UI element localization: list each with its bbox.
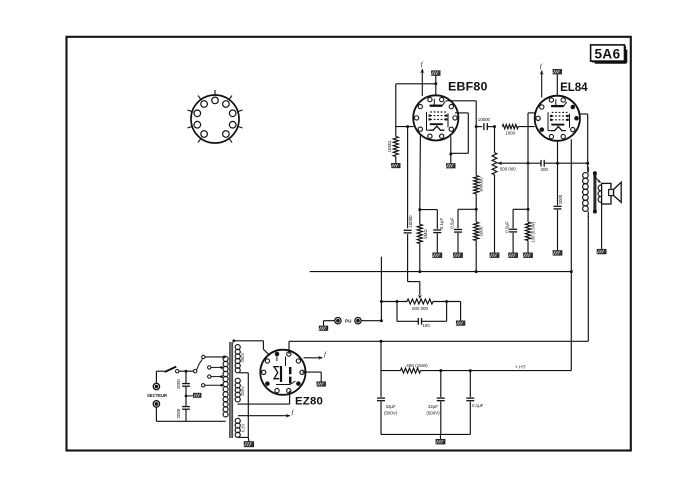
speaker arrow (594, 176, 601, 183)
selector tap 3 (202, 384, 223, 387)
svg-text:SECTEUR: SECTEUR (147, 393, 167, 398)
svg-text:2000: 2000 (176, 379, 181, 389)
wire EBF80 anode top (446, 101, 477, 127)
wire speaker secondary to ground (601, 204, 603, 249)
power transformer secondary 250V-2 (235, 378, 245, 402)
svg-text:5A6: 5A6 (595, 46, 621, 61)
capacitor 200pF NFB (541, 160, 549, 172)
svg-text:10000: 10000 (478, 117, 491, 122)
switch interrupteur (165, 367, 179, 373)
potentiometer 500000 (tone) (407, 299, 433, 311)
wire mains bottom (155, 407, 157, 421)
wire 2000 to ground (557, 210, 559, 251)
wire 130 to ground (527, 241, 529, 253)
ground under cathode cap (509, 253, 518, 258)
svg-text:250V: 250V (240, 352, 245, 362)
svg-text:450 (15W): 450 (15W) (406, 363, 428, 368)
tube EBF80 envelope (413, 95, 458, 140)
wire primary bottom lead (156, 420, 225, 422)
junction grid node EL84 (493, 125, 496, 128)
svg-text:EZ80: EZ80 (295, 395, 323, 407)
wire EL84 anode (579, 114, 588, 172)
junction EBF80 shield node (434, 82, 437, 85)
ground under 0,1µF (433, 253, 442, 258)
wire EZ80 cathode to rail (288, 341, 290, 354)
wire EBF80 cathode stub (450, 137, 452, 164)
wire mains top (156, 371, 164, 383)
wire PU ground lead (324, 321, 335, 326)
junction 1000 on bus (475, 270, 478, 273)
power transformer secondary 250V-1 (235, 345, 245, 373)
wire cap3 drop (469, 371, 471, 398)
junction diode node (406, 125, 409, 128)
ground under 2000 (553, 251, 562, 256)
resistor 100000 (474, 176, 484, 195)
svg-text:130 (0,5W): 130 (0,5W) (531, 221, 536, 242)
junction tone pot left (396, 300, 399, 303)
svg-text:6,3V: 6,3V (241, 423, 246, 432)
tube EZ80 envelope (260, 350, 305, 395)
junction PU line (380, 319, 383, 322)
EL84 filament arrow f (540, 63, 544, 98)
svg-text:1000: 1000 (479, 226, 484, 236)
tube EL84 internals (548, 99, 570, 130)
junction grid RC node (418, 208, 421, 211)
junction tone pot right (445, 300, 448, 303)
wire AGC cap drop (407, 127, 409, 229)
ground PU (319, 326, 328, 330)
ground filter (436, 439, 445, 444)
wire coupling cap to grid node (487, 126, 494, 128)
junction cathode stub (449, 153, 452, 156)
ground under pot (490, 253, 499, 258)
junction decouple node (475, 208, 478, 211)
svg-text:EL84: EL84 (560, 81, 588, 94)
wire NFB line (498, 162, 588, 164)
junction pot line (380, 300, 383, 303)
wire primary bottom drop (587, 216, 589, 341)
junction cathode-NFB (527, 162, 530, 165)
svg-text:2000: 2000 (558, 194, 563, 204)
tube EBF80 label (448, 80, 488, 94)
wire EZ80 anode-2 lead (238, 391, 290, 404)
svg-text:32µF: 32µF (428, 404, 438, 409)
wire grid stopper to EL84 (518, 126, 535, 128)
selector tap 2 (208, 375, 223, 378)
wire decouple branch (458, 209, 476, 228)
svg-text:0,1µF: 0,1µF (472, 403, 484, 408)
wire tone pot to ground (460, 302, 462, 321)
wire EBF80 diode to left node (396, 126, 414, 128)
resistor 130 (0,5W) (525, 221, 535, 242)
power transformer primary (223, 356, 228, 417)
plate label 5A6 (591, 45, 627, 63)
heater winding arrow f (238, 409, 295, 418)
svg-text:+ HT: + HT (515, 364, 526, 370)
junction NFB-2000 node (556, 162, 559, 165)
wire 0,5µF to ground (457, 233, 459, 253)
svg-text:1000: 1000 (505, 130, 515, 135)
tube socket (unused) (187, 90, 242, 143)
tube EL84 envelope (535, 96, 580, 141)
wire pot to ground (494, 175, 496, 253)
svg-text:PU: PU (345, 319, 352, 324)
capacitor 0,1µF (grid) (433, 218, 444, 233)
junction cathode-cap node (527, 208, 530, 211)
ground EZ80 (317, 382, 326, 386)
svg-text:100: 100 (422, 323, 430, 328)
ground under EBF80 (446, 164, 455, 168)
wire grid node to pot (494, 127, 496, 153)
junction +HT cap2 (439, 369, 442, 372)
speaker (602, 182, 622, 204)
wire tone branch (397, 302, 447, 322)
ground mains filter (193, 393, 201, 397)
wire switch to junction (179, 370, 194, 372)
wire EL84 screen riser (570, 139, 572, 370)
wire bottom rail ground stub (440, 434, 442, 439)
tube EZ80 label (295, 395, 323, 407)
wire EBF80 grid drop (419, 134, 422, 224)
wire cap2 to rail (440, 402, 442, 435)
wire tone pot line (381, 301, 460, 303)
wire primary top tap (205, 356, 226, 359)
junction anode-cap tap (475, 125, 478, 128)
PU connector left (335, 318, 341, 324)
capacitor 0,5µF cathode (504, 221, 517, 233)
svg-text:0,1µF: 0,1µF (439, 218, 444, 230)
wire PU hot (361, 320, 381, 322)
wire cap2 drop (440, 371, 442, 398)
selector tap 1 (208, 366, 223, 369)
EL84 shield chassis ground (553, 69, 562, 95)
output transformer primary (583, 167, 589, 217)
capacitor 100pF tone (418, 318, 430, 328)
wire EL84 cathode drop (528, 113, 536, 222)
wire PU riser (380, 257, 382, 321)
output transformer core (593, 171, 597, 213)
wire 5MΩ to bus (419, 244, 421, 272)
wiper arrow into volume pot (418, 293, 422, 299)
tube EZ80 internals (274, 357, 296, 385)
wire 1000 to bus (475, 241, 477, 272)
wire EBF80 right Z-route (451, 113, 469, 153)
wire load to decouple node (475, 194, 477, 222)
wire EZ80 anode-1 lead (234, 341, 270, 355)
svg-text:0,5µF: 0,5µF (504, 221, 509, 233)
wire +HT line (381, 370, 571, 372)
junction mains caps (185, 395, 188, 398)
SECTEUR connector bottom (153, 401, 159, 407)
capacitor 0,1µF output (466, 398, 483, 408)
wire HT rail (289, 340, 588, 342)
svg-text:(500V): (500V) (384, 410, 398, 415)
resistor 450 (15W) (401, 363, 429, 373)
power transformer core (230, 342, 233, 438)
wire first cap to rail (380, 402, 382, 435)
svg-text:5MΩ: 5MΩ (423, 229, 428, 239)
svg-text:(500V): (500V) (426, 410, 440, 415)
ground under speaker (597, 249, 606, 254)
SECTEUR connector top (153, 383, 159, 389)
EBF80 shield chassis ground (431, 71, 440, 96)
wire EZ80 to chassis (302, 372, 321, 382)
wire cathode cap branch (513, 209, 528, 228)
wire EBF80 top-left horizontal (396, 83, 436, 85)
ground under 0,5µF (454, 253, 463, 258)
capacitor 10000pF coupling (478, 117, 491, 130)
wire filter drop (380, 341, 382, 397)
junction transformer HT top (232, 339, 235, 342)
resistor 1000 grid stopper (502, 124, 518, 135)
wire filter bottom rail (381, 433, 470, 435)
tube EZ80 pins (262, 352, 305, 393)
resistor 5MΩ (417, 224, 428, 243)
tube EBF80 internals (427, 99, 449, 130)
wire 2000 drop (557, 163, 559, 205)
wiper arrow volume pot (497, 161, 502, 165)
svg-text:10000: 10000 (408, 215, 413, 228)
tube EL84 pins (536, 98, 579, 139)
svg-text:200: 200 (541, 167, 549, 172)
capacitor 10000pF (AGC) (404, 215, 414, 233)
power transformer secondary 6,3V (235, 418, 245, 437)
tube EL84 label (560, 81, 588, 94)
wire cathode cap ground (512, 233, 514, 253)
svg-text:10MΩ: 10MΩ (387, 140, 392, 153)
output transformer secondary (598, 185, 604, 202)
svg-text:500 000: 500 000 (500, 167, 516, 172)
label PU (345, 319, 352, 324)
junction HT rail filter (380, 340, 383, 343)
resistor 10MΩ (387, 137, 398, 157)
ground under 10MΩ (391, 163, 400, 167)
svg-text:250V: 250V (240, 386, 245, 396)
junction bus to riser (570, 270, 573, 273)
wire secondary CT (238, 373, 249, 442)
svg-text:EBF80: EBF80 (448, 80, 488, 94)
wire 10MΩ to ground (395, 157, 397, 164)
EBF80 filament arrow f (420, 61, 424, 96)
wire AGC bus (310, 271, 572, 273)
wire cap3 to rail (469, 402, 471, 435)
wire grid-node branch (420, 210, 438, 229)
svg-text:0,5µF: 0,5µF (449, 217, 454, 229)
capacitor 32µF (500V) first (377, 398, 398, 415)
wire EL84 cathode stub (557, 140, 559, 163)
svg-text:100000: 100000 (479, 177, 484, 192)
svg-text:500 000: 500 000 (412, 306, 428, 311)
ground under tone pot (456, 321, 465, 325)
svg-text:32µF: 32µF (386, 404, 396, 409)
wire EBF80 left drop (395, 84, 397, 137)
wire anode to coupling cap (476, 126, 482, 128)
EZ80 filament arrow f (304, 351, 328, 360)
voltage selector (194, 355, 206, 373)
wire mains filter drop (185, 371, 187, 421)
wire anode to load (475, 127, 477, 176)
wire 0,1µF to ground (436, 234, 438, 253)
junction mains filter (185, 370, 188, 373)
junction +HT cap3 (469, 369, 472, 372)
PU connector right (355, 318, 361, 324)
label SECTEUR (147, 393, 167, 398)
svg-text:2000: 2000 (176, 408, 181, 418)
capacitor 32µF (500V) second (426, 398, 444, 415)
capacitor 2000pF mains-1 (176, 379, 190, 389)
label +HT (515, 364, 526, 370)
capacitor 2000pF (554, 194, 563, 209)
resistor 1000 (decouple) (474, 222, 484, 241)
tube EBF80 pins (414, 97, 457, 138)
ground transformer CT (244, 442, 254, 447)
wire mains cap ground stub (186, 395, 193, 397)
junction 5MΩ on bus (418, 270, 421, 273)
capacitor 0,5µF (decouple) (449, 217, 462, 232)
ground under 130 (524, 253, 533, 258)
junction NFB at anode (586, 162, 589, 165)
border frame (67, 37, 631, 451)
potentiometer 500000 (volume) (492, 153, 516, 175)
wire cap to wiper jog (408, 234, 420, 293)
capacitor 2000pF mains-2 (176, 407, 190, 419)
